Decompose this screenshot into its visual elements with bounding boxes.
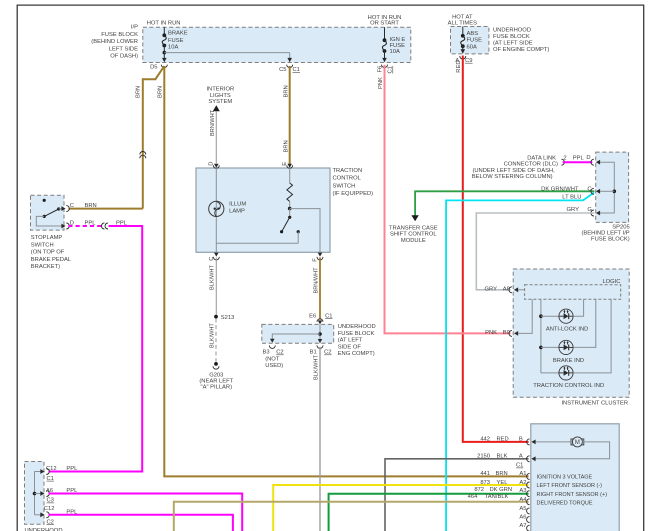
wire: PPL dashed from pin D — [68, 225, 102, 227]
svg-text:C12: C12 — [44, 506, 55, 512]
wire: cluster LED feed bus — [540, 299, 542, 373]
wire: BRN/WHT from pin F to underhood fuse block pin E6 — [319, 258, 321, 320]
svg-text:C1: C1 — [516, 463, 523, 469]
pin A2 (EBCM) — [527, 482, 530, 488]
pin A7 (EBCM) — [527, 525, 530, 531]
svg-text:SYSTEM: SYSTEM — [208, 99, 232, 105]
svg-text:DK GRN: DK GRN — [490, 487, 513, 493]
LED: brake indicator — [559, 340, 573, 354]
svg-text:A4: A4 — [519, 497, 527, 503]
wire: BRN branch split below pin D5 — [143, 66, 165, 79]
svg-text:USED): USED) — [265, 363, 283, 369]
pin C (SP205) — [591, 188, 594, 194]
underhood fuse block connector stub — [25, 462, 45, 525]
wire: motor loop — [535, 441, 572, 443]
fuse block: I/P fuse block (behind lower left side of dash) — [143, 27, 411, 62]
svg-text:SHIFT CONTROL: SHIFT CONTROL — [390, 232, 437, 238]
svg-text:BRAKE PEDAL: BRAKE PEDAL — [31, 257, 72, 263]
svg-text:BRACKET): BRACKET) — [31, 264, 60, 270]
svg-text:2: 2 — [563, 155, 566, 161]
svg-text:BRN: BRN — [85, 203, 97, 209]
wire: TAN/BLK 464 from bottom to EBCM pin A4 — [174, 502, 529, 531]
splice block SP205 — [596, 152, 629, 222]
svg-text:LT BLU: LT BLU — [562, 195, 581, 201]
wire: YEL 873 from bottom to EBCM pin A2 — [273, 485, 528, 531]
pin C12 / C2 — [40, 512, 44, 517]
wire: BLK/WHT from pin C to splice S213 — [215, 258, 217, 315]
svg-text:SWITCH: SWITCH — [31, 242, 54, 248]
svg-text:DATA LINK: DATA LINK — [527, 155, 556, 161]
svg-text:CONNECTOR (DLC): CONNECTOR (DLC) — [504, 162, 558, 168]
svg-text:PPL: PPL — [66, 466, 78, 472]
svg-text:442: 442 — [480, 436, 490, 442]
wire: BLK/WHT from B1 to bottom of page — [319, 347, 321, 531]
wire: BRN from C5 to traction switch pin E — [289, 66, 291, 165]
pin D (traction switch) — [213, 165, 219, 168]
traction control switch box — [196, 168, 330, 252]
svg-text:TAN/BLK: TAN/BLK — [485, 494, 509, 500]
wire: BRN 441 from D5 to EBCM pin A1 — [164, 66, 528, 476]
instrument cluster box — [513, 269, 629, 397]
wire: PPL from DLC to SP205 pin D — [563, 161, 593, 163]
svg-text:A3: A3 — [519, 488, 526, 494]
pin D5 — [162, 58, 167, 62]
pin A / C9 — [461, 49, 466, 53]
svg-text:UNDERHOOD: UNDERHOOD — [493, 27, 531, 33]
svg-text:YEL: YEL — [497, 480, 509, 486]
svg-text:D: D — [586, 155, 590, 161]
pin A6 (EBCM) — [527, 517, 530, 523]
pin A3 (EBCM) — [527, 491, 530, 497]
svg-text:LIGHTS: LIGHTS — [210, 93, 231, 99]
svg-text:"A" PILLAR): "A" PILLAR) — [201, 384, 233, 390]
svg-text:464: 464 — [468, 494, 478, 500]
svg-text:STOPLAMP: STOPLAMP — [31, 235, 63, 241]
underhood fuse block stub (pass through) — [262, 324, 334, 343]
svg-text:A7: A7 — [519, 523, 526, 529]
pin C5 / C1 — [287, 58, 292, 62]
splice S213 — [214, 315, 218, 319]
fuse: ABS FUSE 60A — [462, 27, 464, 36]
svg-text:ANTI-LOCK IND: ANTI-LOCK IND — [546, 326, 589, 332]
svg-text:LAMP: LAMP — [229, 209, 245, 215]
stoplamp switch box — [31, 195, 65, 230]
svg-text:OR START: OR START — [370, 20, 399, 26]
svg-text:C5: C5 — [279, 67, 286, 73]
pin C (traction switch) — [214, 253, 219, 257]
ground G203 — [214, 362, 218, 366]
svg-text:B3: B3 — [263, 350, 270, 356]
svg-text:FUSE BLOCK: FUSE BLOCK — [493, 34, 530, 40]
svg-text:BRN: BRN — [136, 86, 142, 98]
svg-text:OF ENGINE COMPT): OF ENGINE COMPT) — [493, 47, 549, 53]
svg-text:A1: A1 — [519, 471, 526, 477]
svg-text:872: 872 — [474, 487, 484, 493]
svg-text:C1: C1 — [47, 476, 54, 482]
svg-text:PNK: PNK — [485, 330, 497, 336]
svg-text:E: E — [282, 162, 288, 166]
svg-text:DK GRN/WHT: DK GRN/WHT — [541, 186, 579, 192]
svg-text:RED: RED — [497, 436, 509, 442]
svg-text:FUSE BLOCK): FUSE BLOCK) — [591, 236, 630, 242]
svg-text:BRN: BRN — [158, 86, 164, 98]
pin A8 (cluster) — [509, 287, 512, 293]
svg-text:I/P: I/P — [131, 25, 138, 31]
svg-text:BRN/WHT: BRN/WHT — [313, 267, 319, 294]
svg-text:(AT LEFT SIDE: (AT LEFT SIDE — [493, 41, 533, 47]
svg-text:HOT IN RUN: HOT IN RUN — [147, 20, 181, 26]
svg-text:(IF EQUIPPED): (IF EQUIPPED) — [333, 191, 374, 197]
pin A5 (EBCM) — [527, 508, 530, 514]
svg-text:(UNDER LEFT SIDE OF DASH,: (UNDER LEFT SIDE OF DASH, — [472, 168, 555, 174]
svg-text:FUSE: FUSE — [168, 38, 184, 44]
svg-text:C: C — [587, 186, 591, 192]
svg-text:MODULE: MODULE — [401, 238, 426, 244]
logic module box — [525, 285, 621, 300]
svg-text:RIGHT FRONT SENSOR (+): RIGHT FRONT SENSOR (+) — [537, 492, 608, 498]
svg-text:D5: D5 — [150, 64, 157, 70]
svg-text:TRACTION: TRACTION — [333, 168, 363, 174]
svg-text:C: C — [70, 203, 74, 209]
lamp: ILLUM LAMP — [215, 168, 217, 252]
wire: PPL from connector to C12 (underhood fuse block) — [49, 226, 143, 472]
svg-text:ALL TIMES: ALL TIMES — [448, 21, 477, 27]
svg-text:F6: F6 — [378, 66, 384, 73]
svg-text:A2: A2 — [519, 480, 526, 486]
wire: stub internal bus — [34, 472, 36, 515]
pin B3 / C2 (not used) — [269, 345, 275, 348]
wire: SP205 internal bus — [600, 162, 614, 213]
svg-text:FUSE BLOCK: FUSE BLOCK — [338, 331, 375, 337]
svg-text:C12: C12 — [46, 466, 57, 472]
fuse: BRAKE FUSE 10A — [163, 27, 165, 35]
svg-text:441: 441 — [480, 471, 490, 477]
svg-text:C: C — [209, 257, 215, 261]
pin E6 / C1 — [317, 319, 323, 322]
switch: stoplamp contacts — [43, 199, 46, 202]
svg-text:G: G — [587, 207, 592, 213]
svg-text:10A: 10A — [168, 45, 178, 51]
pin D (stoplamp) — [66, 223, 69, 229]
EBCM (electronic brake control module) box — [531, 424, 619, 531]
wire: GRY from SP205 pin G to cluster pin A8 — [476, 213, 594, 290]
pin C (stoplamp) — [66, 206, 69, 212]
svg-text:B1: B1 — [310, 350, 317, 356]
svg-text:(NOT: (NOT — [265, 356, 280, 362]
wire: BRN horizontal into stoplamp pin C — [69, 208, 143, 210]
wire: resistor to pin F — [288, 207, 292, 211]
svg-text:GRY: GRY — [567, 207, 580, 213]
svg-text:C1: C1 — [325, 313, 332, 319]
LED: traction control indicator — [559, 366, 573, 380]
svg-text:A: A — [519, 453, 523, 459]
svg-text:SIDE OF: SIDE OF — [338, 344, 362, 350]
fuse: IGN E FUSE 10A — [384, 27, 386, 40]
wire: PNK from IGN E fuse to cluster pin B9 — [385, 65, 511, 333]
wire: BLK 2150 from bottom to EBCM pin A — [385, 459, 529, 531]
svg-text:FUSE: FUSE — [467, 38, 483, 44]
LED: anti-lock indicator — [559, 309, 573, 323]
wire: fuse block internal bus to C5 — [163, 51, 167, 55]
svg-text:BLK/WHT: BLK/WHT — [313, 355, 319, 380]
pin A (EBCM) — [527, 456, 530, 462]
switch contacts — [289, 209, 291, 218]
inline connector on PPL — [101, 223, 104, 229]
svg-text:S213: S213 — [221, 315, 235, 321]
svg-text:INSTRUMENT CLUSTER: INSTRUMENT CLUSTER — [561, 400, 628, 406]
pin A1 (EBCM) — [527, 473, 530, 479]
svg-text:BLK: BLK — [497, 453, 508, 459]
node: transfer case shift control module arrow — [411, 215, 418, 221]
svg-text:2150: 2150 — [477, 453, 490, 459]
svg-text:TRANSFER CASE: TRANSFER CASE — [389, 225, 438, 231]
pin F (traction switch) — [318, 253, 323, 257]
pin B1 / C2 — [318, 339, 323, 343]
svg-text:RED: RED — [456, 60, 462, 72]
svg-text:CONTROL: CONTROL — [333, 176, 362, 182]
wire: LT BLU from SP205 pin C to bottom of page — [446, 193, 594, 531]
fuse block: underhood fuse block (ABS fuse) — [451, 27, 489, 54]
svg-text:C2: C2 — [276, 350, 283, 356]
svg-text:E6: E6 — [309, 313, 316, 319]
svg-text:GRY: GRY — [485, 286, 498, 292]
wire: DK GRN 872 from bottom to EBCM pin A3 — [329, 494, 529, 531]
wire: DK GRN/WHT from SP205 pin C to transfer case module — [415, 191, 594, 216]
svg-text:A8: A8 — [503, 286, 510, 292]
svg-text:LEFT FRONT SENSOR (-): LEFT FRONT SENSOR (-) — [537, 483, 603, 489]
svg-text:(ON TOP OF: (ON TOP OF — [31, 250, 65, 256]
wire: PPL from A6 to bottom of page — [49, 494, 243, 531]
inline connector on BRN — [140, 152, 146, 155]
svg-text:873: 873 — [480, 480, 490, 486]
svg-text:IGNITION 3 VOLTAGE: IGNITION 3 VOLTAGE — [537, 474, 593, 480]
svg-text:BRAKE IND: BRAKE IND — [553, 358, 584, 364]
svg-text:UNDERHOOD: UNDERHOOD — [338, 324, 376, 330]
wire: lamp return — [216, 242, 298, 244]
svg-text:SWITCH: SWITCH — [333, 183, 356, 189]
motor: ABS pump motor — [572, 437, 582, 447]
pin F6 / C1 — [382, 58, 387, 62]
pin B9 (cluster) — [509, 330, 512, 336]
svg-text:BRN: BRN — [283, 140, 289, 152]
svg-text:(AT LEFT: (AT LEFT — [338, 338, 363, 344]
wire: RED from ABS fuse to EBCM pin B — [463, 56, 529, 442]
svg-text:D: D — [209, 162, 215, 166]
svg-text:B9: B9 — [503, 330, 510, 336]
wire: BRN/WHT to traction switch pin D — [215, 111, 217, 163]
pin E (traction switch) — [287, 165, 293, 168]
svg-text:A5: A5 — [519, 506, 526, 512]
svg-text:TRACTION CONTROL IND: TRACTION CONTROL IND — [533, 383, 604, 389]
svg-text:FUSE BLOCK: FUSE BLOCK — [101, 32, 138, 38]
wire: BLK/WHT S213 to G203 (dashed) — [215, 319, 217, 362]
svg-text:BRAKE: BRAKE — [168, 31, 188, 37]
pin B (EBCM) — [527, 439, 530, 445]
svg-text:10A: 10A — [390, 49, 400, 55]
resistor (illumination dropping resistor) — [289, 168, 291, 183]
svg-text:BLK/WHT: BLK/WHT — [210, 265, 216, 290]
svg-text:BRN: BRN — [496, 471, 508, 477]
wire: BRN to stoplamp switch pin C — [142, 78, 144, 208]
svg-text:PPL: PPL — [573, 155, 585, 161]
svg-text:60A: 60A — [467, 45, 477, 51]
svg-text:M: M — [575, 440, 580, 446]
pin D (SP205) — [591, 159, 594, 165]
svg-text:(BEHIND LOWER: (BEHIND LOWER — [91, 39, 138, 45]
pin C12 / C1 — [40, 469, 44, 474]
svg-text:F: F — [313, 258, 319, 262]
svg-text:DELIVERED TORQUE: DELIVERED TORQUE — [537, 501, 593, 507]
svg-text:LOGIC: LOGIC — [602, 279, 620, 285]
pin A4 (EBCM) — [527, 499, 530, 505]
pin G (SP205) — [591, 210, 594, 216]
svg-text:INTERIOR: INTERIOR — [206, 87, 234, 93]
svg-text:ABS: ABS — [467, 31, 479, 37]
svg-text:PNK: PNK — [378, 77, 384, 89]
svg-text:C2: C2 — [324, 350, 331, 356]
svg-text:C9: C9 — [465, 58, 472, 64]
svg-text:A6: A6 — [519, 515, 526, 521]
svg-text:BRN: BRN — [283, 85, 289, 97]
svg-text:B: B — [519, 436, 523, 442]
svg-text:C3: C3 — [47, 498, 54, 504]
svg-text:ILLUM: ILLUM — [229, 201, 246, 207]
svg-text:BELOW STEERING COLUMN): BELOW STEERING COLUMN) — [472, 174, 553, 180]
svg-text:OF DASH): OF DASH) — [110, 54, 138, 60]
svg-text:LEFT SIDE: LEFT SIDE — [109, 46, 138, 52]
svg-text:BRN/WHT: BRN/WHT — [210, 109, 216, 136]
svg-text:C1: C1 — [293, 67, 300, 73]
wire: internal jumper to B3/B1 — [319, 324, 321, 343]
pin A6 / C3 — [40, 491, 44, 496]
svg-text:ENG COMPT): ENG COMPT) — [338, 351, 375, 357]
pin 2 (DLC) — [561, 159, 564, 165]
svg-text:BLK/WHT: BLK/WHT — [209, 323, 215, 348]
svg-text:C2: C2 — [47, 519, 54, 525]
wire: PPL from C12/C2 to bottom of page — [49, 515, 233, 531]
svg-text:C1: C1 — [388, 66, 394, 73]
